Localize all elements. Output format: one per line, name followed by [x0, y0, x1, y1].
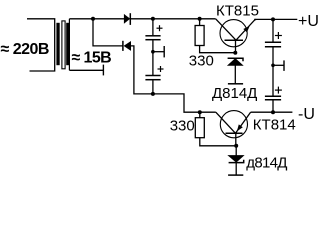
plus C1: [157, 25, 163, 31]
diode VD1: [124, 13, 130, 25]
wire D1 to top rail: [131, 18, 216, 20]
zener VD4 d814D: [228, 146, 244, 175]
common terminal stub (C3/C4 midpoint): [273, 60, 284, 71]
resistor R1: [195, 19, 235, 53]
transformer T1 secondary winding bar: [66, 23, 69, 65]
capacitor C2: [145, 52, 160, 94]
transformer T1 primary top wire: [27, 19, 55, 71]
node R2 top: [198, 110, 202, 114]
svg-text:КТ815: КТ815: [216, 3, 259, 20]
node C2 bottom: [151, 92, 155, 96]
node secondary-top junction: [91, 17, 95, 21]
capacitor C4: [265, 65, 281, 112]
resistor R2: [195, 112, 236, 146]
node R1 top: [198, 17, 202, 21]
node Q1 base junction: [233, 51, 237, 55]
svg-text:≈ 15В: ≈ 15В: [72, 50, 112, 67]
node Q2 base junction: [234, 144, 238, 148]
transformer T1 secondary lead: [68, 19, 70, 71]
svg-text:+U: +U: [298, 13, 319, 30]
node C3/C4 midpoint: [271, 64, 275, 68]
node C3 top: [271, 17, 275, 21]
capacitor C1: [145, 19, 160, 52]
transistor VT1 KT815: [216, 19, 257, 53]
plus C2: [158, 66, 164, 72]
wire branch down to D2: [93, 19, 123, 46]
transformer T1 core: [62, 21, 65, 69]
diode VD2: [123, 41, 131, 51]
wire D2 to bottom rail: [131, 46, 216, 112]
svg-text:КТ814: КТ814: [253, 117, 296, 134]
wire secondary top to D1: [69, 18, 124, 20]
svg-text:330: 330: [170, 117, 195, 134]
plus C3: [275, 32, 282, 39]
common terminal stub (C1/C2 midpoint): [153, 46, 164, 57]
node C1/C2 midpoint: [151, 50, 155, 54]
transformer T1 primary winding bar: [56, 23, 59, 65]
svg-text:≈ 220В: ≈ 220В: [1, 41, 49, 58]
svg-text:330: 330: [189, 53, 214, 70]
svg-text:-U: -U: [298, 106, 315, 123]
zener VD3 D814D: [228, 58, 244, 84]
capacitor C3: [265, 19, 281, 65]
node C1 top: [151, 17, 155, 21]
+U rail: [254, 18, 297, 20]
-U rail: [251, 111, 293, 113]
node C4 bottom: [271, 110, 275, 114]
common terminal stub (transformer): [102, 65, 104, 76]
svg-text:Д814Д: Д814Д: [212, 85, 257, 102]
transformer secondary bottom wire: [69, 69, 103, 71]
svg-text:д814Д: д814Д: [246, 155, 287, 172]
transistor VT2 KT814: [216, 111, 251, 146]
plus C4: [275, 87, 282, 94]
